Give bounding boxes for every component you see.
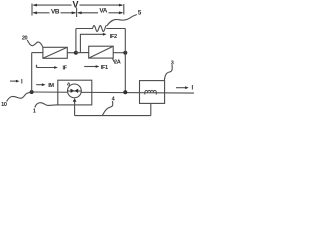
wire bottom rise to field box [150,103,152,115]
converter box 2A [89,46,114,58]
leader 20 [27,40,43,47]
wire into converter 20 [32,52,43,54]
armature bowtie symbol [71,89,79,93]
wire node to converter 2A [76,52,89,54]
svg-text:IF1: IF1 [101,65,108,71]
wire top branch horizontal left [76,28,93,30]
node junction dot middle [74,51,78,55]
svg-text:1: 1 [33,109,36,115]
wire left vertical (field branch tap) [31,53,33,92]
current arrow IM [36,83,45,86]
svg-text:IF: IF [63,65,68,71]
leader 3 [164,65,172,81]
svg-text:10: 10 [1,102,7,108]
dimension line VB [32,11,76,14]
svg-text:V: V [72,0,78,10]
svg-text:3: 3 [171,61,174,67]
field winding box 3 [140,81,165,104]
arrow into armature from below [73,98,77,115]
motor box 1 [58,80,92,105]
svg-text:4: 4 [112,97,116,103]
wire top branch left vertical [75,29,77,53]
wire top branch horizontal right [106,28,125,30]
leader 10 [7,92,31,101]
svg-text:IM: IM [48,83,54,89]
current arrow IF2 [80,33,106,53]
svg-text:IF2: IF2 [110,34,117,40]
current arrow IF1 [84,65,99,68]
wire bottom return [75,115,151,117]
current arrow I right [176,86,189,89]
leader 1 [35,103,58,108]
main armature line [32,92,195,93]
svg-text:I: I [21,79,23,85]
leader 2A [113,58,116,62]
current arrow I left [10,80,20,83]
armature interior line [68,90,82,92]
leader 5 [107,14,137,25]
svg-text:5: 5 [138,10,142,17]
armature circle [68,84,82,98]
svg-text:VB: VB [51,9,60,16]
wire right vertical [124,53,126,92]
leader 4 [102,101,112,115]
svg-text:I: I [192,86,194,92]
wire box2A to right node [113,52,125,54]
svg-text:2A: 2A [114,59,121,65]
wire top branch right vertical [124,29,126,53]
node junction dot right lower [123,90,127,94]
dimension line VA [77,11,123,14]
dimension extension bar middle [76,8,78,18]
node junction dot left [30,90,34,94]
dimension line V [32,4,123,7]
dimension extension bar right [123,4,125,15]
current arrow IF [36,65,58,69]
node junction dot right upper [123,51,127,55]
field inductor coil [145,90,157,94]
wire box20 to node [67,52,76,54]
svg-text:20: 20 [22,36,28,42]
dimension extension bar left [31,4,33,16]
svg-text:VA: VA [99,8,107,15]
converter box 20 [43,47,67,58]
resistor 5 squiggle [93,26,107,32]
